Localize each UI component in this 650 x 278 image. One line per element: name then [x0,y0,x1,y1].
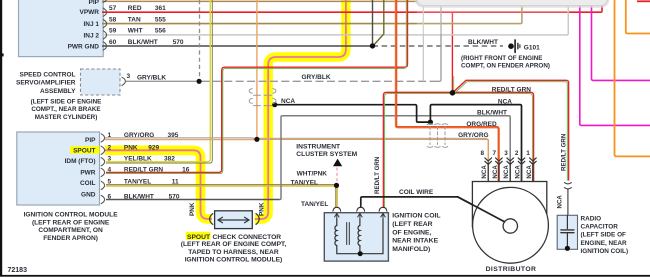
wire TAN/YEL vertical down to ignition coil [335,185,337,208]
junction dot NCA tap [272,102,277,107]
wire LT GRN stripe beside red branch [453,76,455,92]
svg-text:TAPED TO HARNESS, NEAR: TAPED TO HARNESS, NEAR [188,249,279,256]
wire RED/LT GRN junction left arm to ignition coil [383,92,452,208]
svg-text:11: 11 [172,179,179,186]
svg-text:NCA: NCA [498,99,512,106]
svg-text:WHT: WHT [128,28,143,35]
svg-text:59: 59 [109,28,117,35]
wire TAN 555 [102,5,522,23]
ICM caption [24,211,119,242]
svg-text:PWR: PWR [80,169,95,176]
svg-text:3: 3 [108,156,112,163]
junction dot ignition coil bus [358,251,363,256]
wire BLK/YEL vertical + diagonal into ground junction [373,0,383,45]
svg-text:NCA: NCA [557,195,564,209]
wire LT GRN stripe of RED/LT GRN 16 [106,0,406,174]
svg-text:929: 929 [148,144,159,151]
svg-text:SERVO/AMPLIFIER: SERVO/AMPLIFIER [16,80,76,87]
svg-text:(RIGHT FRONT OF ENGINE: (RIGHT FRONT OF ENGINE [461,55,543,62]
svg-text:GRY/ORG: GRY/ORG [458,132,488,139]
svg-text:RED/LT GRN: RED/LT GRN [124,166,164,173]
svg-text:VPWR: VPWR [80,9,100,16]
distributor body [472,182,548,264]
SPOUT label yellow highlight [70,146,100,153]
junction dot radio capacitor ground [565,246,570,251]
wire BLK/WHT dashed run to G101 [373,45,504,47]
svg-text:INJ 2: INJ 2 [83,32,99,39]
svg-text:CLUSTER SYSTEM: CLUSTER SYSTEM [296,151,357,158]
svg-text:INJ 1: INJ 1 [83,21,99,28]
PCM connector pin name labels (PIP, VPWR, INJ, PWR GND) [68,0,100,51]
svg-text:BLK/WHT: BLK/WHT [124,193,154,200]
frame border tick [0,53,4,56]
wire TAN/YEL vertical yellow stripe [336,185,338,208]
wire MAGENTA 1 (right side) [580,5,650,125]
svg-text:(LEFT REAR OF ENGINE: (LEFT REAR OF ENGINE [32,219,110,226]
ignition coil caption [392,213,440,254]
svg-text:TAN: TAN [128,16,141,23]
svg-text:6: 6 [108,193,112,200]
svg-text:BLK/WHT: BLK/WHT [468,39,498,46]
svg-text:PIP: PIP [85,137,96,144]
svg-text:GND: GND [81,191,96,198]
svg-text:TAN/YEL: TAN/YEL [124,179,151,186]
wire WHT pale vertical near ladder [422,0,424,81]
svg-text:(LEFT REAR: (LEFT REAR [392,221,432,228]
svg-text:COMPT, ON FENDER APRON): COMPT, ON FENDER APRON) [461,63,550,70]
ground location [461,55,550,70]
svg-text:395: 395 [168,132,179,139]
svg-text:RED/LT GRN: RED/LT GRN [492,87,532,94]
SPOUT check connector caption [181,234,287,264]
svg-text:FENDER APRON): FENDER APRON) [43,235,98,242]
wire WHT 556 [102,5,568,35]
wire COIL WIRE [361,197,505,222]
faded panel region under tooltip [417,5,569,35]
svg-text:PNK: PNK [189,202,196,216]
wire GRY/ORG 395 grey line [105,138,256,139]
svg-text:PWR GND: PWR GND [68,44,100,51]
wire WHT/PNK dashed to instrument cluster [336,168,338,184]
wire BLK/WHT 570 (pin 60) solid to ground junction [102,45,373,47]
PCM connector box (top left) [19,0,104,57]
wire TAN/YEL 11 yellow line [106,185,337,187]
svg-text:RADIO: RADIO [581,215,602,222]
svg-text:INSTRUMENT: INSTRUMENT [296,143,341,150]
speed control servo/amplifier assembly label [16,72,76,95]
wire PNK core (upper run) [255,0,346,219]
instrument cluster labels [296,143,357,158]
svg-text:COMPARTMENT, ON: COMPARTMENT, ON [38,227,103,234]
ignition control module box [17,132,100,205]
svg-text:YEL/BLK: YEL/BLK [124,156,152,163]
svg-text:570: 570 [173,39,184,46]
svg-text:5: 5 [108,179,112,186]
wire ORG vertical from top into GRY/ORG junction [256,0,258,139]
svg-text:SPOUT: SPOUT [187,234,211,241]
svg-text:PNK: PNK [259,202,266,216]
svg-text:16: 16 [182,166,190,173]
ICM connector pin arcs 1-6 [101,134,104,204]
wire ORANGE 2 (top right corner) [626,0,650,34]
wire PNK 929 core (lower run) [105,150,212,219]
wire LT GRN stripe (capacitor arm) [455,82,567,181]
ignition coil box [324,213,388,261]
svg-text:OF ENGINE,: OF ENGINE, [392,229,431,236]
svg-text:PNK: PNK [124,144,138,151]
svg-text:3: 3 [504,150,508,157]
svg-text:556: 556 [155,28,166,35]
ground G101 symbol [508,40,520,52]
svg-text:SPEED CONTROL: SPEED CONTROL [20,72,76,79]
wire GRY/BLK continuation to the right, rising at x441 [202,80,438,82]
junction dot TAN/YEL splice [334,183,339,188]
distributor pin numbers [481,150,531,157]
wire YEL vertical (YEL/BLK 382 rising) [106,0,210,162]
speed control servo dashed box [81,69,121,95]
svg-text:361: 361 [155,5,166,12]
svg-text:NCA: NCA [481,165,488,179]
wire highlight: SPOUT circuit lower yellow band (PNK 929 from ICM pin 2 to check connector left pin) [105,150,212,219]
svg-text:(LEFT SIDE OF ENGINE: (LEFT SIDE OF ENGINE [31,99,102,106]
wire ORG/RED red stripe [397,0,498,182]
svg-text:COIL: COIL [80,180,96,187]
svg-text:NCA: NCA [492,165,499,179]
wire RED/LT GRN to distributor pin 1 [453,92,534,181]
svg-text:570: 570 [169,193,180,200]
wire RED/LT GRN diagonal + run to radio capacitor [453,80,569,180]
svg-text:MANIFOLD): MANIFOLD) [392,246,430,253]
svg-text:2: 2 [108,144,112,151]
SPOUT check connector box [215,211,253,229]
tooltip popup (top right) [417,0,608,6]
svg-text:BLK/WHT: BLK/WHT [128,39,158,46]
ICM pin name labels (PIP, SPOUT, IDM, PWR, COIL, GND) [65,137,97,199]
distributor pin chevrons + stubs [485,158,536,182]
junction dot GRY/BLK splice [197,79,202,84]
svg-text:58: 58 [109,16,117,23]
junction dot NCA jog / inline connector C2 [428,120,433,125]
wire BLK vertical into ground junction [372,0,374,46]
distributor NCA pin labels (vertical) [481,165,533,179]
svg-text:IGNITION COIL: IGNITION COIL [392,213,440,220]
svg-text:(LEFT REAR OF ENGINE COMPT,: (LEFT REAR OF ENGINE COMPT, [181,241,287,248]
radio capacitor box [557,215,577,249]
check connector left paren + arrow [210,214,260,225]
svg-text:GRY/BLK: GRY/BLK [302,74,331,81]
svg-text:DISTRIBUTOR: DISTRIBUTOR [486,266,537,273]
instrument cluster arrow (triangle) [333,159,342,167]
svg-text:2: 2 [515,150,519,157]
svg-text:RED/LT GRN: RED/LT GRN [374,156,381,194]
svg-text:60: 60 [109,39,117,46]
ignition coil internals [335,214,386,254]
distributor rotor line (coil wire continuation) [458,197,505,222]
wire RED stub top right corner [637,0,650,2]
svg-text:BLK/WHT: BLK/WHT [477,110,507,117]
svg-text:WHT/PNK: WHT/PNK [297,171,328,178]
svg-text:GRY/BLK: GRY/BLK [137,74,166,81]
wire LT GRN stripe (coil arm) [385,94,453,208]
radio capacitor caption [581,215,629,255]
svg-text:8: 8 [481,150,485,157]
wire TAN/YEL 11 tan line [106,184,337,186]
svg-text:TAN/YEL: TAN/YEL [291,180,318,187]
SPOUT text yellow highlight (caption) [186,232,211,240]
radio capacitor wire break symbol [564,183,571,189]
ignition coil pin arcs [333,207,387,211]
wire GRY/BLK dashed vertical to top [199,0,201,79]
frame left border [0,0,2,276]
svg-text:COMPT., NEAR BRAKE: COMPT., NEAR BRAKE [31,106,100,113]
wire GRY/ORG continuation to distributor pin 8 [257,139,488,181]
svg-text:COIL WIRE: COIL WIRE [399,189,434,196]
svg-text:CHECK CONNECTOR: CHECK CONNECTOR [213,234,282,241]
frame bottom border [0,275,650,277]
wire ORANGE 1 (right side) [615,0,650,156]
svg-text:7: 7 [493,150,497,157]
svg-text:CAPACITOR: CAPACITOR [581,224,619,231]
wire GRY/ORG 395 orange line [105,139,256,141]
svg-text:ORG/RED: ORG/RED [466,121,497,128]
wire PIP (tan) top row [102,0,417,2]
wire RED 361 branch down to RED/LT GRN junction [451,12,453,93]
svg-text:IDM (FTO): IDM (FTO) [65,158,96,165]
svg-text:1: 1 [526,150,530,157]
check connector double arrow [218,217,249,223]
svg-text:4: 4 [108,166,112,173]
svg-text:IGNITION COIL): IGNITION COIL) [581,248,629,255]
wire GRY/BLK from speed control [126,80,199,82]
svg-text:RED/LT GRN: RED/LT GRN [561,133,568,171]
svg-text:72183: 72183 [8,267,28,274]
wire NCA to radio capacitor below break [567,189,569,216]
PCM connector pin arcs 57-60 [103,0,106,50]
wire LT GRN stripe (pin 1 arm) [453,94,533,182]
svg-text:555: 555 [155,16,166,23]
wire BLK/WHT 570 (ICM pin 6) [106,199,280,201]
wire RED/LT GRN 16 red (ICM pin 4 up and over to top) [106,0,408,172]
inline connector C2 (dashed, below NCA jog) [427,124,448,148]
wire RED 361 horizontal [102,5,602,12]
tooltip shadow [415,0,610,8]
svg-text:ENGINE, NEAR: ENGINE, NEAR [581,240,628,247]
svg-text:(LEFT SIDE OF: (LEFT SIDE OF [581,232,627,239]
inline connector C1 (around ORG + PNK wires) [249,89,276,106]
wire BLK stripe of YEL/BLK [106,0,212,163]
junction dot RED/LT GRN splice [450,90,456,96]
radio capacitor symbol [561,215,574,247]
speed control pin arc [122,77,125,85]
svg-text:IGNITION CONTROL MODULE: IGNITION CONTROL MODULE [24,211,119,218]
svg-text:TAN/YEL: TAN/YEL [301,201,328,208]
svg-text:RED: RED [128,5,142,12]
wire highlight: SPOUT circuit upper yellow band (PNK wire from top to check connector right pin) [255,0,346,219]
wire ORG/RED (to distributor pin 7) [396,0,499,182]
svg-text:NCA: NCA [281,98,295,105]
wire NCA black (from inline connector to distributor pin 2 with jog) [275,105,522,182]
svg-text:NEAR INTAKE: NEAR INTAKE [392,238,438,245]
svg-text:SPOUT: SPOUT [73,147,95,154]
junction dot GRY/ORG splice [254,137,259,142]
junction dot G101 splice [370,43,375,48]
svg-text:IGNITION CONTROL MODULE): IGNITION CONTROL MODULE) [185,256,283,263]
svg-text:ASSEMBLY: ASSEMBLY [40,88,76,95]
svg-text:G101: G101 [524,44,540,51]
svg-text:57: 57 [109,5,117,12]
svg-text:382: 382 [164,156,175,163]
svg-text:1: 1 [108,132,112,139]
distributor ladder labels [458,87,531,139]
svg-text:GRY/ORG: GRY/ORG [124,132,154,139]
svg-text:NCA: NCA [503,165,510,179]
speed control location [31,99,102,121]
svg-text:MASTER CYLINDER): MASTER CYLINDER) [35,114,98,121]
svg-text:3: 3 [127,73,131,80]
svg-text:PIP: PIP [89,0,100,6]
svg-text:NCA: NCA [515,165,522,179]
wire MAGENTA 2 (right side) [592,5,650,80]
svg-text:NCA: NCA [526,165,533,179]
